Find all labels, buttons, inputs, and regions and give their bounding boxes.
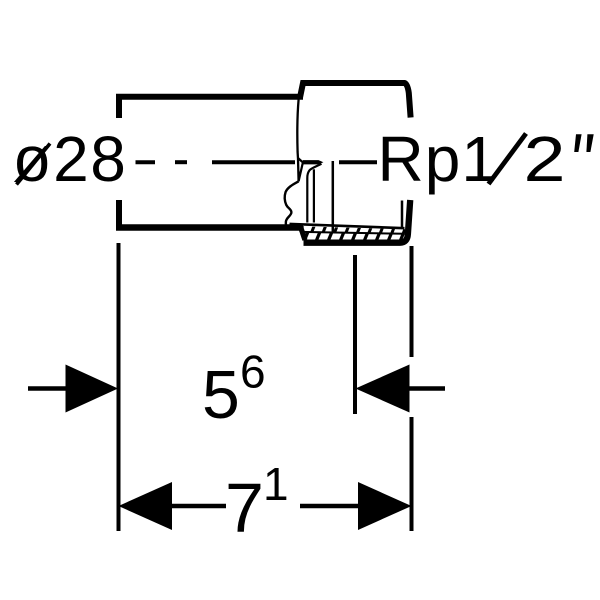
svg-text:ø28: ø28 — [13, 123, 128, 195]
svg-text:5: 5 — [202, 357, 240, 433]
svg-text:7: 7 — [225, 469, 264, 547]
svg-text:Rp1: Rp1 — [378, 123, 498, 195]
svg-text:6: 6 — [240, 346, 266, 398]
svg-text:1: 1 — [263, 458, 289, 510]
svg-text:2: 2 — [524, 123, 566, 195]
